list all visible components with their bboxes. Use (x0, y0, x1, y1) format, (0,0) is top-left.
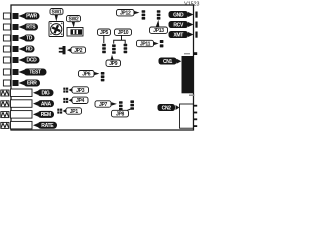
LED DCD body (13, 57, 19, 63)
terminal XMT (195, 32, 197, 38)
svg-text:XMT: XMT (173, 32, 183, 38)
LED TEST bezel (3, 69, 10, 75)
switch REM body (11, 111, 33, 119)
header JP8 (130, 100, 134, 109)
svg-text:JP2: JP2 (74, 48, 83, 54)
svg-text:JP13: JP13 (153, 28, 164, 34)
header JP10b (124, 44, 128, 53)
label RTS (19, 24, 39, 31)
svg-text:JP5: JP5 (100, 30, 109, 36)
jumper JP2 (59, 46, 66, 54)
LED RD bezel (3, 46, 10, 52)
svg-text:JP10: JP10 (118, 30, 129, 36)
svg-text:CN1: CN1 (163, 59, 173, 65)
label REM (33, 111, 54, 118)
svg-text:PWR: PWR (26, 14, 37, 20)
label JP9 (106, 55, 121, 67)
svg-text:TEST: TEST (29, 70, 41, 76)
label JP12 (117, 10, 140, 17)
svg-text:DCD: DCD (27, 58, 38, 64)
svg-text:RD: RD (26, 47, 33, 53)
label JP6 (79, 71, 100, 78)
label JP4 (69, 97, 88, 104)
jumper JP1 (57, 109, 62, 114)
label JP7 (95, 101, 117, 108)
header JP7 (119, 101, 123, 110)
switch REM actuator (1, 112, 9, 118)
svg-text:REM: REM (41, 112, 51, 118)
svg-text:ANA: ANA (41, 101, 52, 107)
svg-text:JP6: JP6 (82, 72, 91, 78)
label TEST (19, 69, 47, 76)
jumper JP4 (63, 98, 68, 103)
LED DCD bezel (3, 57, 10, 63)
label RCV (169, 21, 194, 28)
terminal GND (195, 12, 197, 18)
svg-text:RCV: RCV (173, 22, 184, 28)
connector CN2 (180, 104, 198, 128)
switch RATE body (11, 121, 33, 128)
header JP12 (142, 10, 146, 19)
svg-text:CN2: CN2 (162, 105, 172, 111)
label CN2 (158, 104, 180, 111)
svg-text:RATE: RATE (41, 123, 54, 129)
svg-text:TD: TD (26, 36, 33, 42)
label JP1 (63, 108, 82, 115)
header JP6 (101, 72, 105, 81)
svg-text:JP1: JP1 (70, 109, 79, 115)
svg-text:JP8: JP8 (116, 112, 125, 118)
jumper JP11 (160, 40, 164, 47)
label SW2 (67, 16, 81, 28)
connector CN1 (182, 52, 198, 93)
switch DIG body (11, 89, 33, 97)
svg-text:SW1: SW1 (52, 10, 62, 16)
switch ANA actuator (1, 101, 9, 107)
header JP5 (102, 44, 106, 53)
LED TD bezel (3, 35, 10, 41)
label GND (169, 11, 194, 18)
LED PWR body (13, 13, 19, 19)
LED ERR body (13, 80, 19, 86)
LED RTS bezel (3, 24, 10, 30)
LED RTS body (13, 24, 19, 30)
label JP8 (112, 109, 132, 118)
svg-text:JP12: JP12 (120, 11, 131, 17)
DIP switch SW2 (67, 28, 83, 37)
label SW1 (50, 9, 63, 22)
label CN1 (159, 58, 182, 65)
label DCD (19, 57, 40, 64)
label JP13 (150, 20, 168, 34)
switch RATE actuator (1, 122, 9, 128)
label ANA (33, 100, 54, 107)
switch DIG actuator (1, 90, 9, 96)
label ERR (19, 80, 41, 87)
label XMT (169, 31, 194, 38)
svg-text:JP4: JP4 (76, 98, 85, 104)
label PWR (19, 13, 40, 20)
svg-text:DIG: DIG (42, 91, 50, 97)
board outline (11, 5, 194, 130)
LED PWR bezel (3, 13, 10, 19)
marks below CN1 (189, 95, 195, 96)
svg-text:JP9: JP9 (109, 61, 118, 67)
LED ERR bezel (3, 80, 10, 86)
label JP5 (98, 29, 111, 43)
svg-text:JP11: JP11 (140, 41, 151, 47)
svg-text:V1523: V1523 (184, 1, 199, 7)
LED TEST body (13, 69, 19, 75)
header JP10a (112, 44, 116, 53)
label JP2 (67, 47, 86, 54)
header JP13 (157, 10, 161, 19)
svg-text:RTS: RTS (26, 25, 36, 31)
rotary switch SW1 (49, 22, 64, 37)
label TD (19, 35, 35, 42)
label JP11 (137, 40, 159, 47)
svg-text:GND: GND (173, 12, 184, 18)
label RD (19, 46, 35, 53)
jumper JP3 (63, 88, 68, 93)
label JP10 (114, 29, 132, 44)
svg-text:SW2: SW2 (69, 17, 79, 23)
label RATE (33, 122, 57, 129)
LED TD body (13, 35, 19, 41)
svg-text:JP7: JP7 (99, 102, 108, 108)
switch ANA body (11, 100, 33, 108)
LED RD body (13, 46, 19, 52)
label DIG (33, 89, 54, 96)
terminal RCV (195, 22, 197, 28)
svg-text:JP3: JP3 (76, 88, 85, 94)
svg-text:ERR: ERR (27, 81, 37, 87)
label JP3 (69, 87, 89, 94)
